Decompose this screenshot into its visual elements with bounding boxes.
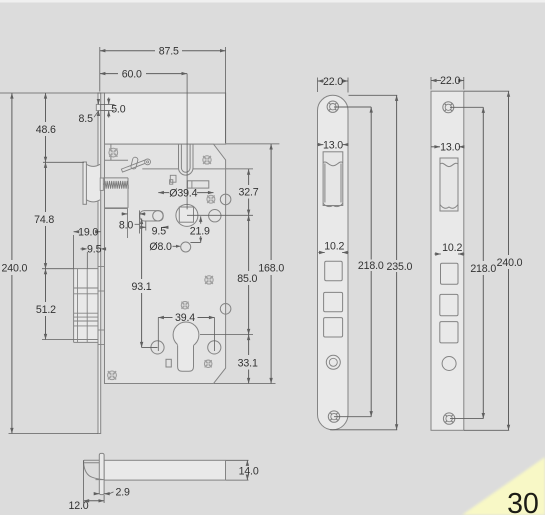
dimension 9.5 mid <box>145 222 147 231</box>
svg-text:39.4: 39.4 <box>175 312 195 324</box>
svg-text:13.0: 13.0 <box>323 139 343 151</box>
dimension 22.0 right <box>430 77 432 90</box>
svg-text:12.0: 12.0 <box>68 500 88 512</box>
svg-text:19.0: 19.0 <box>78 227 98 239</box>
rib <box>110 144 112 160</box>
svg-text:168.0: 168.0 <box>258 262 284 274</box>
dimension 74.8 <box>45 162 47 212</box>
dimension 10.2 mid <box>319 252 325 254</box>
dimension 87.5 <box>100 50 155 52</box>
middle bottom screw <box>328 411 339 422</box>
dimension 93.1 <box>141 219 143 280</box>
right bottom screw <box>443 413 454 424</box>
svg-text:51.2: 51.2 <box>36 304 56 316</box>
lock case body <box>105 144 226 383</box>
extension faceplate bottom <box>9 433 99 435</box>
middle bolt windows <box>325 261 343 280</box>
svg-text:93.1: 93.1 <box>131 281 151 293</box>
dimension 85.0 <box>248 215 250 271</box>
euro cylinder hole <box>173 322 199 348</box>
middle latch face <box>323 162 343 207</box>
svg-text:9.5: 9.5 <box>152 225 167 237</box>
extension bolt bottom <box>42 339 74 341</box>
follower spring channel <box>179 144 194 175</box>
extension bolt top <box>42 268 74 270</box>
svg-text:Ø39.4: Ø39.4 <box>169 187 197 199</box>
dimension 13.0 right <box>431 146 440 148</box>
lever pin <box>145 159 151 165</box>
internal plate line <box>142 168 178 170</box>
extension case bottom <box>214 383 276 385</box>
extension faceplate top <box>0 92 105 94</box>
dimension 5.0 <box>100 103 114 105</box>
dimension 2.9 <box>94 493 99 495</box>
cylinder screw hole right <box>208 341 221 354</box>
dimension 60.0 <box>100 73 118 75</box>
faceplate side view <box>98 93 101 434</box>
top cover block <box>105 93 226 144</box>
cylinder fix hole <box>181 242 191 252</box>
latch spring <box>104 181 128 189</box>
svg-text:74.8: 74.8 <box>34 214 54 226</box>
keyway <box>166 359 171 367</box>
svg-text:5.0: 5.0 <box>111 103 126 115</box>
svg-text:240.0: 240.0 <box>497 257 523 269</box>
right top screw <box>443 102 454 113</box>
svg-text:240.0: 240.0 <box>2 263 28 275</box>
dimension 32.7 <box>248 169 250 185</box>
dimension 14.0 <box>226 459 249 461</box>
slider bar <box>187 181 208 188</box>
latch pocket <box>105 160 129 208</box>
svg-text:2.9: 2.9 <box>115 486 130 498</box>
dimension 8.0 <box>122 213 128 215</box>
dimension 48.6 <box>45 93 47 122</box>
dimension 218.0 mid <box>334 106 371 108</box>
right latch window <box>440 158 458 211</box>
svg-text:60.0: 60.0 <box>122 68 142 80</box>
svg-text:Ø8.0: Ø8.0 <box>149 241 172 253</box>
deadlatch lever <box>121 157 147 172</box>
right latch face <box>440 163 458 208</box>
edge hole lower <box>220 304 231 315</box>
screw post 4 <box>205 276 213 284</box>
middle plate body <box>318 95 349 430</box>
spring pocket top <box>103 177 128 179</box>
dimension 240.0 <box>11 93 13 260</box>
svg-text:9.5: 9.5 <box>87 244 102 256</box>
deadbolt guide <box>105 208 128 210</box>
dimension 240.0 right <box>464 90 509 92</box>
screw post 1 <box>109 148 118 157</box>
screw post 7 <box>108 371 117 380</box>
corner triangle <box>462 457 545 515</box>
right plate body <box>431 91 464 430</box>
extension plate line <box>226 168 253 170</box>
svg-text:21.9: 21.9 <box>190 225 210 237</box>
right bolt windows <box>441 263 459 284</box>
extension cylinder center <box>200 334 253 336</box>
svg-text:8.0: 8.0 <box>119 220 134 232</box>
extension hub center <box>187 214 253 216</box>
adjust slot <box>140 211 163 221</box>
svg-text:87.5: 87.5 <box>159 45 179 57</box>
dimension 10.2 right <box>435 253 441 255</box>
svg-text:13.0: 13.0 <box>440 142 460 154</box>
slider end <box>191 181 193 188</box>
svg-text:10.2: 10.2 <box>324 241 344 253</box>
dimension 218.0 right <box>450 106 483 108</box>
stop block pin <box>170 180 173 185</box>
spring cap <box>100 178 103 190</box>
svg-text:32.7: 32.7 <box>238 187 258 199</box>
screw post 5 <box>181 301 189 309</box>
dimension 19.0 <box>74 231 77 233</box>
svg-text:22.0: 22.0 <box>323 76 343 88</box>
dimension 39.4 <box>158 317 172 319</box>
screw post 3 <box>207 195 215 203</box>
screw post 6 <box>204 360 212 368</box>
follower side hole <box>209 210 221 222</box>
bottom faceplate bar <box>99 453 104 494</box>
middle top screw <box>327 101 338 112</box>
handle follower <box>176 204 198 226</box>
top light strip <box>0 0 545 3</box>
cylinder screw hole left <box>151 341 164 354</box>
svg-text:22.0: 22.0 <box>440 75 460 87</box>
svg-text:218.0: 218.0 <box>358 260 384 272</box>
middle latch window <box>323 152 343 206</box>
middle mid hole <box>326 355 340 369</box>
screw post 2 <box>203 156 211 164</box>
dimension 235.0 mid <box>349 94 398 96</box>
bolt opening stubs <box>98 266 105 268</box>
right mid hole <box>442 357 456 371</box>
svg-text:10.2: 10.2 <box>442 242 462 254</box>
dimension 9.5 left <box>81 248 83 250</box>
dimension 12.0 <box>83 460 85 503</box>
svg-text:30: 30 <box>507 488 539 515</box>
dimension 51.2 <box>45 269 47 302</box>
extension case top <box>226 143 279 145</box>
deadbolt laminated <box>74 269 98 343</box>
svg-text:14.0: 14.0 <box>239 465 259 477</box>
dimension 33.1 <box>248 335 250 356</box>
bottom latch body <box>104 460 225 480</box>
bottom latch head <box>84 460 105 479</box>
faceplate trigger pin <box>96 104 100 110</box>
svg-text:235.0: 235.0 <box>387 261 413 273</box>
slot pin <box>153 211 163 221</box>
stop block <box>170 175 176 182</box>
dimension 22.0 mid <box>317 78 319 93</box>
svg-text:33.1: 33.1 <box>238 357 258 369</box>
dimension 168.0 <box>270 144 272 260</box>
latch bolt head <box>86 164 100 202</box>
svg-text:85.0: 85.0 <box>237 273 257 285</box>
dimension dia 39.4 <box>158 192 169 194</box>
svg-text:218.0: 218.0 <box>470 263 496 275</box>
dimension 13.0 mid <box>318 144 324 146</box>
dimension 21.9 <box>200 216 202 223</box>
dimension 8.5 <box>97 99 100 105</box>
svg-text:8.5: 8.5 <box>79 113 94 125</box>
follower square <box>179 207 193 222</box>
edge hole upper <box>220 194 231 205</box>
svg-text:48.6: 48.6 <box>36 124 56 136</box>
extension latch top <box>43 161 84 163</box>
